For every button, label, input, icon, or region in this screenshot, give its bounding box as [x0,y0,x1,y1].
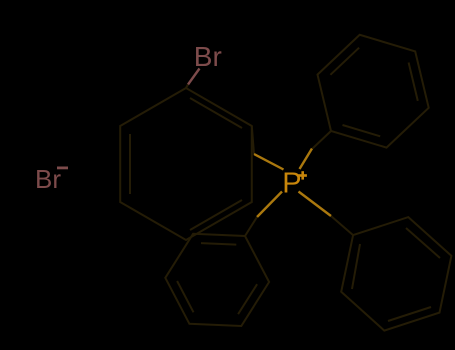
phosphonium P+ [282,168,307,200]
wire CH2 to ring [252,126,254,154]
bond Br to ring [188,69,200,85]
bond P-phenyl SW (orange) [257,192,282,218]
bond P-phenyl NE (orange) [300,149,313,170]
phenyl ring NE [318,35,429,148]
svg-text:P: P [282,168,301,200]
aromatic inner bonds (2-bromophenyl) [129,134,131,194]
wire SE dark continuation [331,216,353,235]
bond P-phenyl SE (orange) [299,192,332,217]
wire SW dark continuation [245,217,257,236]
wire NE dark continuation [313,131,332,149]
phenyl ring SE [341,217,451,331]
bromide counterion Br- [35,164,68,194]
bond P-CH2 (orange) [254,154,284,170]
phenyl ring SW [165,234,269,326]
svg-text:Br: Br [194,41,222,72]
benzene ring (2-bromophenyl) [120,88,252,240]
